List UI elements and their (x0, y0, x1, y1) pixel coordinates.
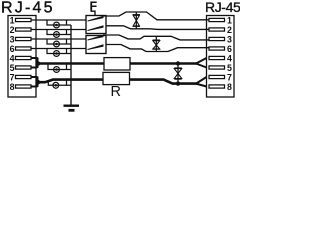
wire pin2 left to fuse box (31, 29, 86, 31)
svg-text:4: 4 (10, 54, 15, 64)
gas arrester G2 (54, 32, 60, 38)
svg-text:4: 4 (227, 54, 232, 64)
wire pair1 top eye (103, 12, 209, 20)
svg-text:3: 3 (227, 35, 232, 45)
wire pair2 bottom into eye (106, 45, 209, 52)
svg-text:8: 8 (227, 82, 232, 92)
J1 pin 7 contact (10, 73, 31, 83)
J2 pin 7 contact (209, 73, 232, 83)
gas arrester G4 (54, 51, 60, 57)
resistor R1 on pair 4/5 (104, 58, 130, 70)
arrester branch line 4 (47, 49, 71, 54)
svg-text:R: R (111, 84, 121, 100)
connector J2 (right RJ-45 jack body) (207, 16, 235, 98)
fuse box pair 3/6 (86, 36, 106, 54)
label RJ-45 left (1, 0, 55, 16)
J2 pin 2 contact (209, 25, 232, 35)
svg-text:8: 8 (10, 82, 15, 92)
svg-text:6: 6 (227, 44, 232, 54)
J2 pin 5 contact (209, 63, 232, 73)
fuse block F label (90, 0, 98, 16)
junction dot pair 4/5 (36, 61, 41, 66)
TVS diode D1 bidirectional (133, 12, 140, 29)
svg-text:5: 5 (10, 63, 15, 73)
junction dot TVS top on 4/5 (176, 61, 180, 65)
svg-text:1: 1 (10, 16, 15, 26)
merge bar pins 4/5 (31, 58, 38, 69)
J2 pin 3 contact (209, 35, 232, 45)
fuse F1 blade (88, 16, 104, 22)
svg-text:7: 7 (227, 73, 232, 83)
svg-text:2: 2 (227, 25, 232, 35)
arrester branch line pair 7/8 (48, 80, 71, 85)
resistor R2 on pair 7/8 (103, 72, 130, 84)
J1 pin 6 contact (10, 44, 31, 54)
TVS diode D3 bidirectional between pairs (174, 64, 181, 84)
J1 pin 2 contact (10, 25, 31, 35)
svg-text:6: 6 (10, 44, 15, 54)
wire pin1 left to fuse box (31, 19, 86, 21)
bold pair bus 4/5 (38, 62, 198, 65)
arrester branch line 2 (47, 30, 71, 35)
svg-text:7: 7 (10, 73, 15, 83)
svg-text:RJ-45: RJ-45 (1, 0, 55, 16)
J1 pin 1 contact (10, 16, 31, 26)
ground bus vertical (70, 25, 72, 106)
fuse F4 blade (88, 44, 104, 50)
fuse F2 blade (88, 25, 104, 31)
wire pin3 left to fuse box (31, 38, 86, 40)
J2 pin 4 contact (209, 54, 232, 64)
svg-text:1: 1 (227, 16, 232, 26)
merge bar pins 7/8 (31, 77, 38, 88)
J2 pin 8 contact (209, 82, 232, 92)
ground symbol (64, 106, 80, 111)
label R (111, 84, 121, 100)
junction dot TVS bottom on 7/8 (176, 81, 180, 85)
gas arrester G5 (54, 67, 60, 73)
J2 pin 1 contact (209, 16, 232, 26)
wire pair2 top into eye (103, 35, 209, 40)
J1 pin 4 contact (10, 54, 31, 64)
svg-text:5: 5 (227, 63, 232, 73)
arrester branch line pair 4/5 (48, 64, 71, 70)
fork pair 7/8 to J2 pins 7 and 8 (196, 77, 207, 87)
bold pair bus 7/8 (38, 80, 198, 84)
wire pin6 left to fuse box (31, 48, 86, 50)
arrester branch line 1 (47, 20, 71, 25)
arrester branch line 3 (47, 39, 71, 44)
fuse box pair 1/2 (86, 16, 106, 34)
gas arrester G3 (54, 41, 60, 47)
fork pair 4/5 to J2 pins 4 and 5 (196, 58, 207, 68)
wire pair1 bottom eye (106, 26, 209, 30)
J1 pin 5 contact (10, 63, 31, 73)
junction dot pair 7/8 (36, 80, 41, 85)
gas arrester G6 (53, 82, 59, 88)
J1 pin 8 contact (10, 82, 31, 92)
svg-text:3: 3 (10, 35, 15, 45)
J2 pin 6 contact (209, 44, 232, 54)
svg-text:2: 2 (10, 25, 15, 35)
label RJ-45 right (205, 0, 241, 15)
svg-text:RJ-45: RJ-45 (205, 0, 240, 15)
gas arrester G1 (54, 22, 60, 28)
connector J1 (left RJ-45 jack body) (8, 16, 36, 98)
TVS diode D2 bidirectional (153, 36, 160, 51)
J1 pin 3 contact (10, 35, 31, 45)
fuse F3 blade (88, 35, 104, 41)
